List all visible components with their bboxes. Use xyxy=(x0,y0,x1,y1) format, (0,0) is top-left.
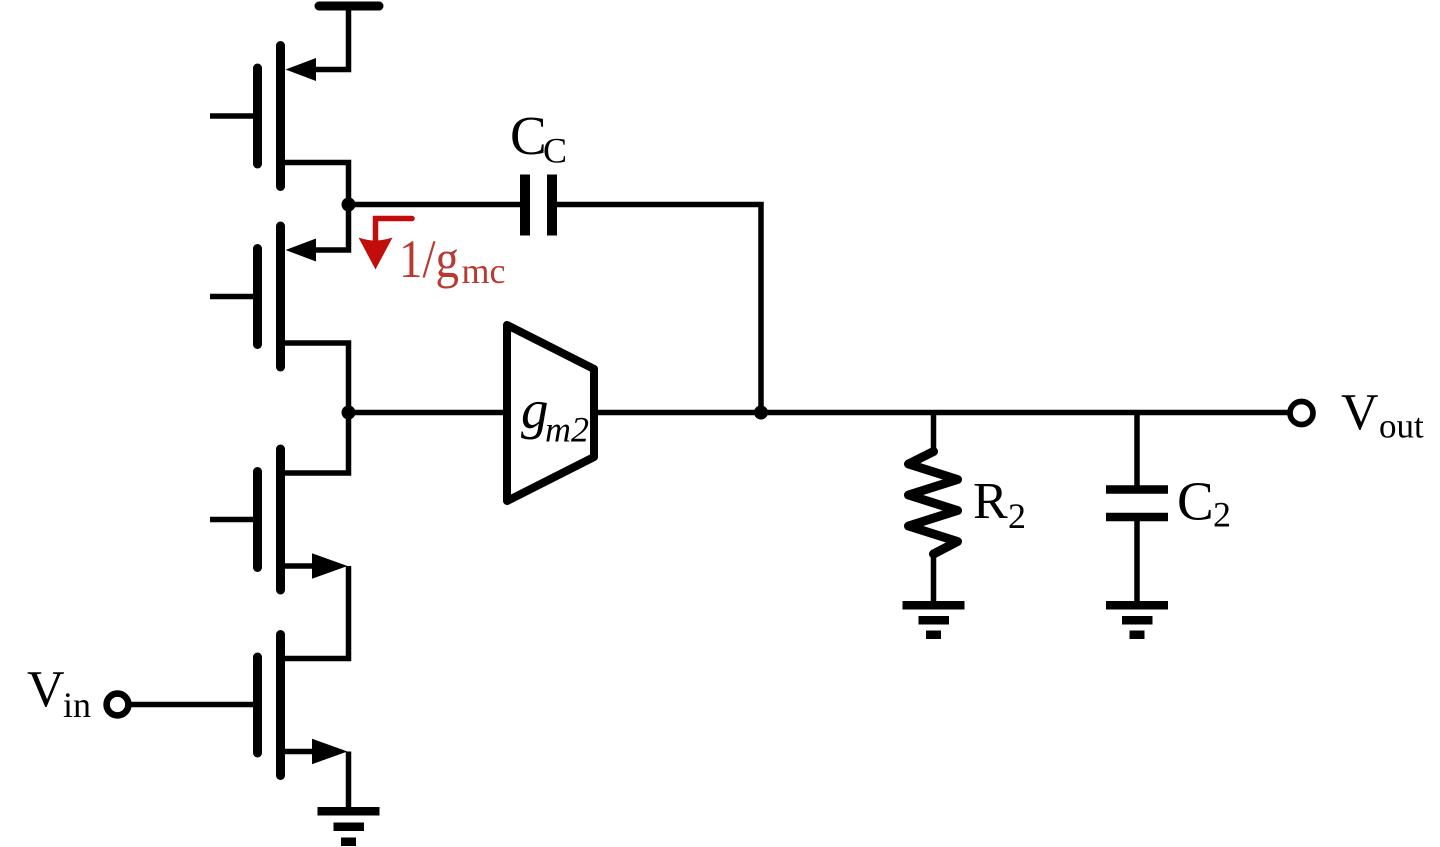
node A junction dot xyxy=(342,198,356,212)
svg-text:V: V xyxy=(27,661,65,718)
transconductance amplifier gm2 xyxy=(507,325,594,501)
svg-text:in: in xyxy=(63,685,91,725)
wire C2 to ground xyxy=(1134,521,1140,601)
label C2 xyxy=(1177,471,1231,535)
capacitor CC xyxy=(525,175,552,236)
label 1/gmc (red) xyxy=(399,229,505,291)
node B junction dot xyxy=(342,406,356,420)
label gm2 xyxy=(521,379,589,450)
wire M1 drain through node A to M2 source xyxy=(281,163,349,251)
svg-text:1/g: 1/g xyxy=(399,229,459,289)
transistor M4 (NMOS input) xyxy=(258,635,348,776)
capacitor C2 xyxy=(1106,490,1168,518)
wire output line to C2 xyxy=(1134,413,1140,486)
wire Vin to M4 gate xyxy=(131,702,253,708)
wire M2 drain through node B to M3 drain xyxy=(281,343,349,473)
terminal Vin xyxy=(107,694,129,716)
ground under C2 xyxy=(1106,601,1168,639)
svg-text:2: 2 xyxy=(1213,495,1231,535)
svg-text:mc: mc xyxy=(462,251,506,291)
svg-text:C: C xyxy=(510,105,547,166)
wire R2 to ground xyxy=(931,554,937,601)
svg-text:C: C xyxy=(543,131,567,171)
ground under M4 xyxy=(318,807,380,846)
svg-text:V: V xyxy=(1341,384,1379,441)
svg-text:out: out xyxy=(1379,407,1424,446)
label R2 xyxy=(973,473,1026,536)
terminal Vout xyxy=(1290,402,1313,425)
svg-text:R: R xyxy=(973,473,1008,530)
wire M4 source to ground xyxy=(346,752,352,808)
power rail VDD xyxy=(319,2,379,11)
svg-text:m2: m2 xyxy=(545,410,589,450)
ground under R2 xyxy=(903,601,965,639)
label Vin xyxy=(27,661,91,725)
wire output node to R2 xyxy=(931,413,937,453)
svg-text:C: C xyxy=(1177,471,1214,532)
label CC xyxy=(510,105,567,171)
red arrow 1/gmc indicator xyxy=(359,219,413,270)
label Vout xyxy=(1341,384,1424,446)
transistor M2 (PMOS cascode) xyxy=(210,226,316,367)
wire node A to CC left plate xyxy=(349,202,521,208)
wire CC right plate to output node xyxy=(557,205,761,413)
transistor M1 (PMOS current source) xyxy=(210,46,316,187)
node C junction dot xyxy=(754,406,768,420)
wire gm2 output line to Vout xyxy=(594,410,1288,416)
wire M3 source to M4 drain xyxy=(281,566,349,659)
transistor M3 (NMOS cascode) xyxy=(210,449,348,590)
wire VDD to M1 source xyxy=(312,8,349,70)
svg-text:2: 2 xyxy=(1008,496,1026,536)
resistor R2 xyxy=(909,452,958,555)
wire node B to gm2 input xyxy=(349,410,508,416)
